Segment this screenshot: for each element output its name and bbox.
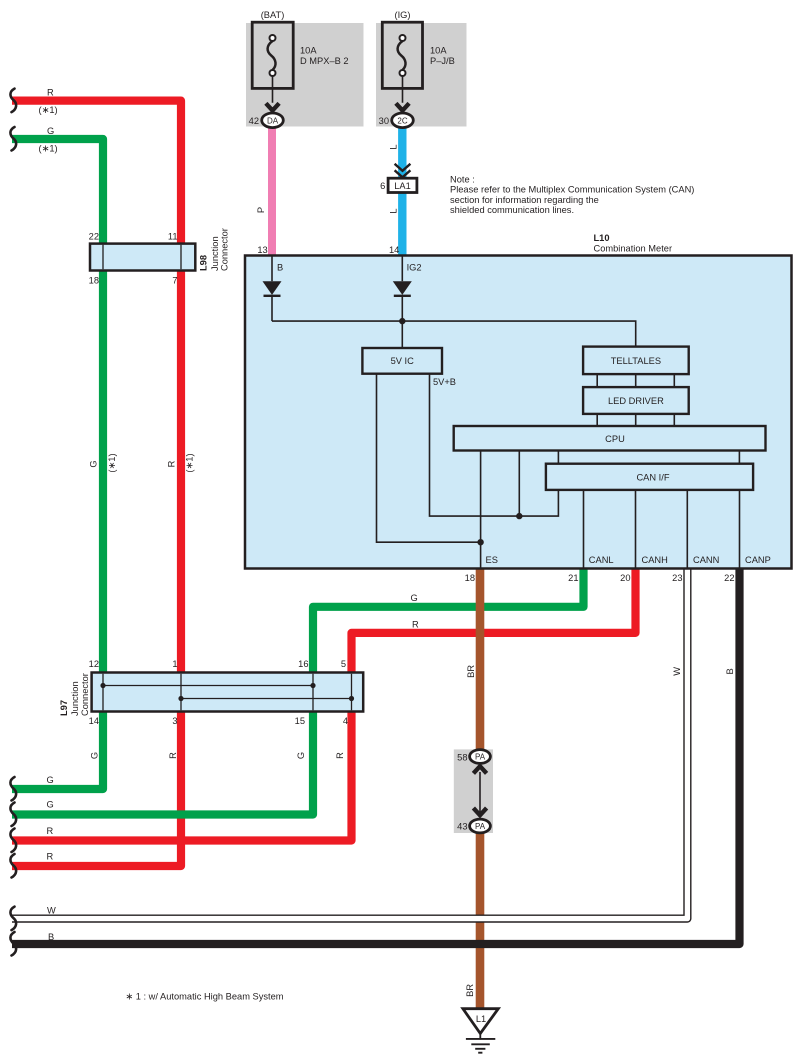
- svg-text:22: 22: [724, 573, 734, 583]
- svg-text:1: 1: [172, 659, 177, 669]
- svg-text:6: 6: [380, 181, 385, 191]
- svg-text:R: R: [47, 826, 54, 836]
- svg-text:Connector: Connector: [220, 228, 230, 271]
- svg-text:P: P: [256, 207, 266, 213]
- svg-text:G: G: [47, 126, 54, 136]
- svg-text:section for information regard: section for information regarding the: [450, 195, 599, 205]
- svg-text:2C: 2C: [397, 116, 407, 125]
- svg-text:TELLTALES: TELLTALES: [611, 356, 661, 366]
- svg-text:G: G: [47, 775, 54, 785]
- svg-text:Combination Meter: Combination Meter: [594, 244, 673, 254]
- svg-text:Junction: Junction: [70, 681, 80, 716]
- svg-text:22: 22: [89, 232, 99, 242]
- svg-text:B: B: [48, 932, 54, 942]
- svg-text:BR: BR: [466, 665, 476, 678]
- svg-text:30: 30: [379, 116, 389, 126]
- svg-text:shielded communication lines.: shielded communication lines.: [450, 205, 574, 215]
- svg-text:B: B: [277, 263, 283, 273]
- svg-text:CANH: CANH: [642, 555, 668, 565]
- svg-text:B: B: [725, 668, 735, 674]
- svg-text:16: 16: [298, 659, 308, 669]
- svg-text:12: 12: [89, 659, 99, 669]
- svg-text:R: R: [47, 851, 54, 861]
- svg-text:43: 43: [457, 822, 467, 832]
- svg-text:G: G: [90, 752, 100, 759]
- svg-text:R: R: [47, 88, 54, 98]
- svg-text:IG2: IG2: [407, 263, 422, 273]
- svg-text:R: R: [412, 620, 419, 630]
- svg-text:14: 14: [389, 245, 399, 255]
- svg-text:(∗1): (∗1): [39, 144, 58, 154]
- svg-text:5V+B: 5V+B: [433, 377, 456, 387]
- svg-text:5: 5: [341, 659, 346, 669]
- svg-text:L: L: [389, 144, 399, 149]
- svg-text:(BAT): (BAT): [261, 10, 285, 20]
- svg-text:L97: L97: [59, 700, 69, 716]
- svg-text:15: 15: [295, 716, 305, 726]
- svg-text:ES: ES: [486, 555, 498, 565]
- svg-text:58: 58: [457, 752, 467, 762]
- svg-text:DA: DA: [267, 116, 279, 125]
- svg-text:P–J/B: P–J/B: [430, 56, 455, 66]
- svg-text:G: G: [47, 800, 54, 810]
- svg-text:4: 4: [343, 716, 348, 726]
- svg-text:L: L: [389, 208, 399, 213]
- svg-text:10A: 10A: [430, 46, 447, 56]
- svg-text:W: W: [47, 905, 56, 915]
- svg-text:R: R: [168, 752, 178, 759]
- svg-text:11: 11: [168, 232, 178, 242]
- svg-text:CANP: CANP: [745, 555, 771, 565]
- svg-text:PA: PA: [475, 822, 486, 831]
- svg-text:21: 21: [568, 573, 578, 583]
- svg-text:7: 7: [172, 276, 177, 286]
- svg-text:LED DRIVER: LED DRIVER: [608, 396, 664, 406]
- svg-text:Connector: Connector: [80, 673, 90, 716]
- svg-text:42: 42: [249, 116, 259, 126]
- svg-text:14: 14: [89, 716, 99, 726]
- svg-text:LA1: LA1: [394, 181, 411, 191]
- svg-text:Note :: Note :: [450, 175, 475, 185]
- svg-text:G: G: [89, 460, 99, 467]
- svg-text:W: W: [672, 667, 682, 676]
- svg-text:5V IC: 5V IC: [391, 356, 415, 366]
- svg-text:20: 20: [620, 573, 630, 583]
- svg-text:R: R: [167, 460, 177, 467]
- svg-text:PA: PA: [475, 752, 486, 761]
- svg-text:BR: BR: [465, 984, 475, 997]
- svg-text:(IG): (IG): [394, 10, 410, 20]
- svg-text:G: G: [296, 752, 306, 759]
- svg-text:L1: L1: [476, 1014, 486, 1024]
- svg-text:∗ 1 : w/ Automatic High Beam S: ∗ 1 : w/ Automatic High Beam System: [125, 992, 283, 1002]
- svg-text:CAN I/F: CAN I/F: [636, 473, 669, 483]
- svg-text:CANL: CANL: [589, 555, 614, 565]
- svg-text:CANN: CANN: [693, 555, 719, 565]
- svg-text:R: R: [335, 752, 345, 759]
- svg-text:23: 23: [672, 573, 682, 583]
- svg-text:L10: L10: [594, 233, 610, 243]
- svg-text:CPU: CPU: [605, 434, 625, 444]
- svg-text:3: 3: [172, 716, 177, 726]
- svg-text:G: G: [411, 593, 418, 603]
- svg-text:(∗1): (∗1): [185, 453, 195, 472]
- svg-text:(∗1): (∗1): [107, 453, 117, 472]
- svg-text:L98: L98: [199, 255, 209, 271]
- svg-text:(∗1): (∗1): [39, 105, 58, 115]
- svg-text:Please refer to the Multiplex: Please refer to the Multiplex Communicat…: [450, 185, 694, 195]
- svg-text:D MPX–B 2: D MPX–B 2: [300, 56, 349, 66]
- svg-text:13: 13: [257, 245, 267, 255]
- svg-text:18: 18: [89, 276, 99, 286]
- svg-text:18: 18: [465, 573, 475, 583]
- svg-text:10A: 10A: [300, 46, 317, 56]
- svg-text:Junction: Junction: [210, 236, 220, 271]
